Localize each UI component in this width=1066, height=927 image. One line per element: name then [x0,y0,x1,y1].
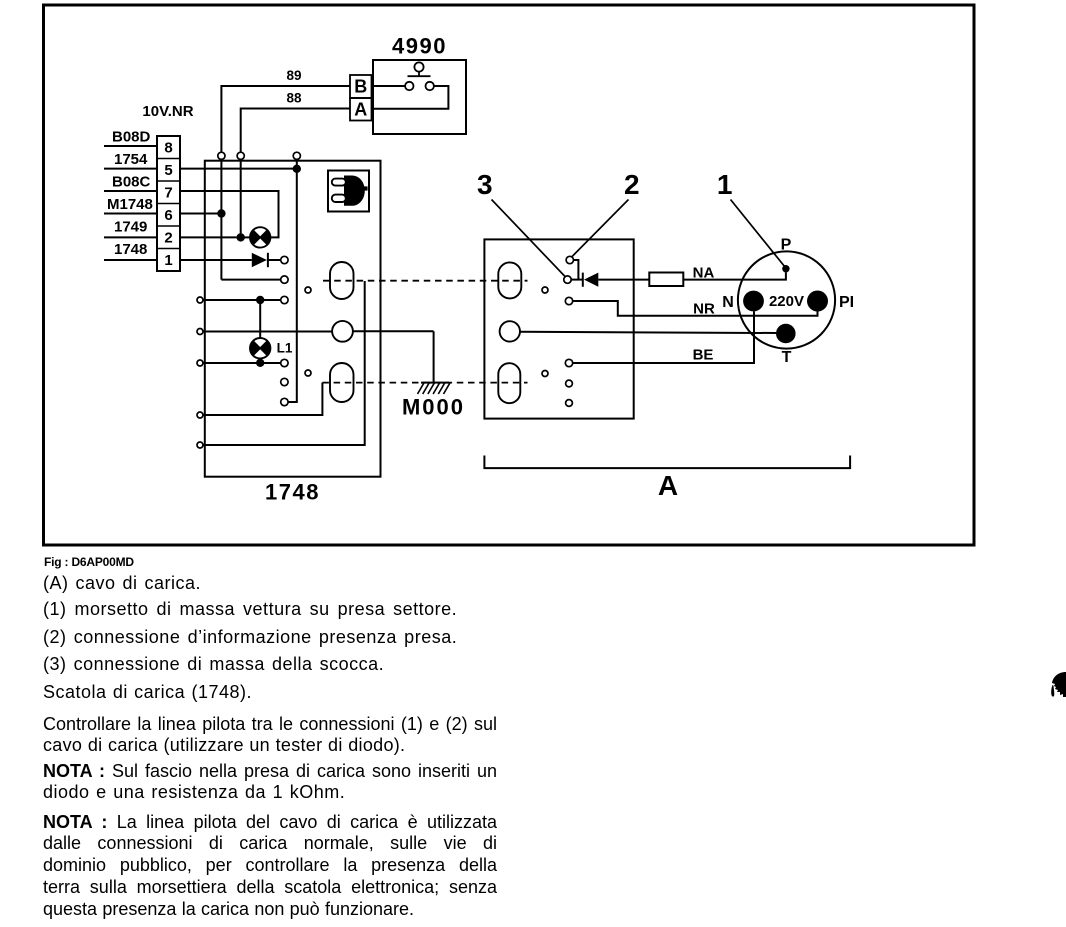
resistor 1 kOhm [649,273,683,287]
wire 1749 pin 2 [104,236,157,238]
wire NR [573,301,818,318]
svg-text:6: 6 [164,207,172,224]
terminal circle wire 88 [237,152,244,159]
svg-text:8: 8 [164,140,172,157]
pin circle A-363 [565,359,572,366]
box A connector [484,239,633,418]
wire T connector [520,332,776,333]
svg-text:1748: 1748 [114,241,147,258]
bracket A [484,456,850,502]
junction dot pin 6 [217,209,225,217]
border frame [44,5,975,545]
junction dot row 363 [256,359,264,367]
left terminal row 415 [197,383,322,418]
connector pin B [350,75,372,98]
lone pin A-545-373 [542,371,548,377]
lone pin 308-373 [305,370,311,376]
svg-text:B: B [354,77,367,97]
caption line 1 [43,599,497,620]
lone pin 308-290 [305,287,311,293]
left terminal row 331 [197,329,332,335]
wire 1754 pin 5 [104,168,157,170]
slot connector top 1748 [330,262,354,299]
slot connector bottom A [498,363,520,403]
svg-text:5: 5 [164,162,172,179]
ground M000 [418,383,451,394]
wire round connector to ground [353,331,434,382]
socket circle 220V [738,251,835,348]
diode D2 [571,273,649,287]
wire M1748 pin 6 [104,213,157,215]
wire lamp L1 bottom [259,358,261,362]
pin circle A-279 [564,276,571,283]
wire switch to A [372,86,449,109]
connector pin A [350,98,372,121]
box 1748 [205,161,381,477]
junction dot pin5 [293,165,301,173]
round connector 1748 [332,321,353,342]
paragraph NOTA 2 line 4 [43,877,497,898]
paragraph NOTA 2 line 5 [43,899,497,920]
pin PI [807,291,854,312]
svg-text:PI: PI [839,294,854,311]
callout 2 [572,169,640,257]
svg-text:3: 3 [477,169,493,200]
round connector A [500,321,520,341]
wire pin 5 to junction [180,168,297,170]
paragraph NOTA 2 line 2 [43,833,497,854]
svg-text:M1748: M1748 [107,196,153,213]
pin circle lone A-383 [566,380,573,387]
svg-text:10V.NR: 10V.NR [142,103,193,120]
left terminal row 445 [197,281,365,448]
svg-text:M000: M000 [402,395,465,420]
wire pin 1 to diode [180,259,252,261]
wire dot to lamp [241,236,250,238]
pushbutton plunger [408,62,431,76]
svg-text:NA: NA [693,265,715,282]
pin circle row 363 [281,359,288,366]
svg-text:L1: L1 [277,341,293,356]
wire B to switch [372,85,406,87]
svg-text:2: 2 [164,230,172,247]
pin P [781,237,792,273]
paragraph NOTA 2 line 1 [43,812,497,833]
svg-text:T: T [782,349,792,366]
wire 1748 pin 1 [104,259,157,261]
callout 1 [717,169,784,266]
dashed link top [323,280,528,282]
pin circle row 279 [281,276,288,283]
caption line 2 [43,627,497,648]
pin circle A-301 [565,297,572,304]
svg-text:1749: 1749 [114,219,147,236]
pin circle diode row [281,256,288,263]
caption line 3 [43,654,497,675]
paragraph NOTA 1 line 1 [43,761,497,782]
svg-text:N: N [722,294,734,311]
junction dot lamp left [237,233,245,241]
pin circle row 300 [281,296,288,303]
svg-text:1748: 1748 [265,480,320,505]
svg-text:B08D: B08D [112,129,151,146]
svg-text:89: 89 [286,68,301,83]
svg-text:A: A [354,100,367,120]
svg-text:7: 7 [164,185,172,202]
wire 88 branch down [240,159,242,237]
connector strip 10V.NR [157,136,180,271]
svg-text:1: 1 [717,169,733,200]
wire pin 2 [180,236,241,238]
caption line A [43,573,497,594]
left terminal row 300 [197,297,281,303]
svg-text:4990: 4990 [392,34,447,59]
switch contacts [405,82,434,90]
wire lamp L1 top [259,300,261,338]
svg-text:1: 1 [164,252,172,269]
wire 89 branch down [221,159,280,279]
svg-text:B08C: B08C [112,174,151,191]
slot connector top A [498,262,521,298]
svg-text:88: 88 [286,91,302,106]
wire BE [573,311,754,363]
slot connector bottom 1748 [330,363,354,402]
svg-text:2: 2 [624,169,640,200]
svg-text:BE: BE [693,347,714,364]
wire 89 [221,68,350,152]
terminal circle top of box 1748 [293,152,300,159]
left terminal row 363 [197,360,281,366]
svg-text:A: A [658,470,678,501]
plug icon [328,171,369,212]
pin T [776,324,796,366]
paragraph NOTA 1 line 2 [43,782,497,803]
pin circle lone A-403 [566,400,573,407]
paragraph Controllare line 1 [43,714,497,735]
pin circle row 402 [281,398,288,405]
diode D1 [252,253,281,267]
lamp L1 [250,338,270,358]
svg-text:1754: 1754 [114,151,148,168]
wire junction down to pin [288,159,297,402]
wire B08C pin 7 [104,190,157,192]
wire pin 260 to diode node [574,260,579,280]
callout 3 [477,169,565,277]
wire NA [683,265,786,282]
lone pin A-545-290 [542,287,548,293]
paragraph NOTA 2 line 3 [43,855,497,876]
svg-text:NR: NR [693,301,715,318]
junction dot row 300 [256,296,264,304]
paragraph Controllare line 2 [43,735,497,756]
pin circle lone row 382 [281,378,288,385]
caption Scatola [43,682,497,703]
lamp indicator upper [250,227,270,247]
wire B08D pin 8 [104,145,157,147]
page-edge hand icon [1046,669,1066,709]
pin N [722,291,764,312]
dashed link bottom [322,382,527,384]
switch box 4990 [373,60,466,134]
pin circle A-260 [566,256,573,263]
svg-text:220V: 220V [769,293,804,310]
wire pin 7 lamp loop [180,191,279,237]
figure caption [44,555,134,569]
wire 88 [241,91,350,153]
terminal circle wire 89 [218,152,225,159]
wire pin 6 [180,213,221,215]
